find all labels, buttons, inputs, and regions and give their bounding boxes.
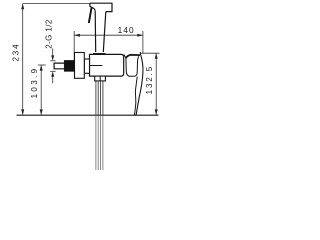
inlet fitting black block C xyxy=(64,60,74,71)
sprayer handle left edge xyxy=(94,12,97,53)
inlet pipe xyxy=(54,63,64,69)
hose line 1 xyxy=(95,81,97,116)
inlet axis line inside body xyxy=(84,65,102,67)
sprayer trigger diagonal xyxy=(89,7,92,23)
svg-text:132.5: 132.5 xyxy=(145,65,154,95)
dimension 103.9 bottom arrow xyxy=(40,109,43,115)
dimension 103.9 line xyxy=(40,65,42,115)
dimension 132.5 top arrow xyxy=(155,53,158,59)
dimension 103.9 top arrow xyxy=(40,65,43,71)
sprayer head left edge xyxy=(89,3,91,6)
outlet nut split line xyxy=(99,76,101,81)
sprayer seat xyxy=(93,53,106,56)
sprayer head underside left xyxy=(90,6,95,11)
connector piece A xyxy=(84,59,89,73)
sprayer head top bar xyxy=(90,3,112,11)
hose line 4 xyxy=(102,81,104,116)
svg-text:2-G 1/2: 2-G 1/2 xyxy=(44,19,53,49)
tick upper xyxy=(50,60,55,62)
hose line 2 xyxy=(97,81,99,116)
svg-text:234: 234 xyxy=(12,42,21,61)
outlet nut below body xyxy=(95,76,106,81)
leader 2-G1/2 upper segment xyxy=(52,49,54,57)
dimension 140 right arrow xyxy=(137,34,143,37)
svg-text:103.9: 103.9 xyxy=(30,67,39,99)
svg-text:140: 140 xyxy=(118,25,135,35)
leader lower arrow (up) xyxy=(51,71,54,76)
union nut B xyxy=(75,53,85,79)
hose line 3 xyxy=(100,81,102,116)
lever notch at body top right xyxy=(124,54,126,58)
sprayer handle right edge xyxy=(103,12,106,52)
dimension 234 top arrow xyxy=(21,4,24,10)
tick lower xyxy=(50,70,55,72)
dimension 132.5 bottom arrow xyxy=(155,109,158,115)
lever top band xyxy=(126,55,140,58)
leader upper arrow (down) xyxy=(51,55,54,60)
dimension 132.5 line xyxy=(155,53,157,115)
lever outer curve xyxy=(136,55,143,115)
dimension 234 bottom arrow xyxy=(21,109,24,115)
extension line right vertical xyxy=(142,31,144,54)
extension line top of lever (for 132.5) xyxy=(141,52,160,54)
extension line top (sprayer head top to 234 arrow) xyxy=(23,3,90,5)
dimension 140 left arrow xyxy=(74,34,80,37)
valve body xyxy=(90,54,124,76)
dimension 234 line xyxy=(22,4,24,115)
extension line left (inlet axis vertical) xyxy=(73,31,75,60)
wall baseline xyxy=(17,114,159,116)
extension tick at pipe axis xyxy=(38,64,46,66)
leader lower segment xyxy=(52,76,54,83)
lever blade inner curve xyxy=(134,77,137,116)
lever inner skirt xyxy=(126,56,139,76)
lever right tick xyxy=(139,52,141,55)
dimension 140 line xyxy=(74,34,143,36)
